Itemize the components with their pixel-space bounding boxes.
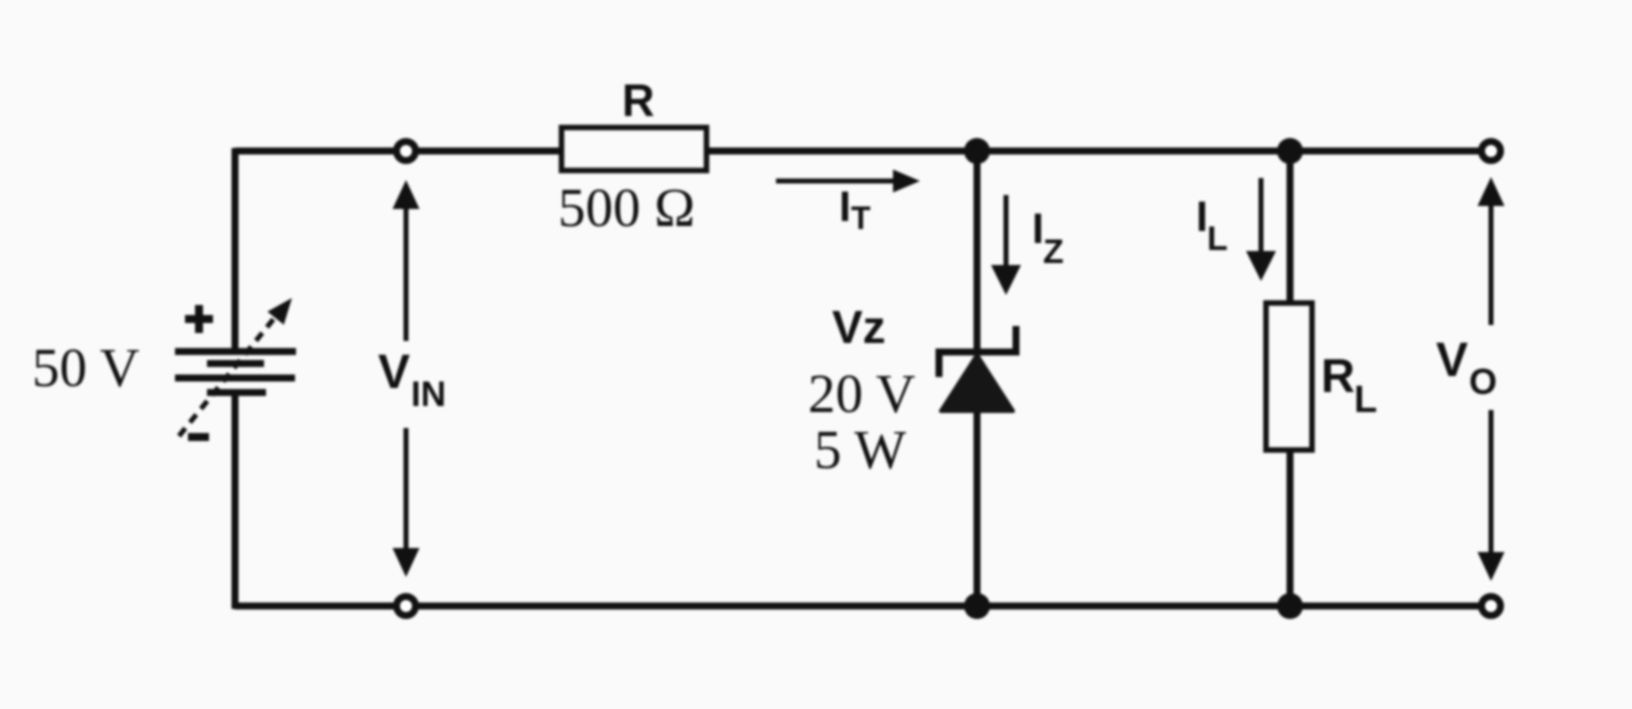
- svg-text:O: O: [1469, 361, 1497, 402]
- svg-text:IN: IN: [411, 375, 446, 414]
- svg-text:Z: Z: [1043, 233, 1064, 271]
- svg-text:I: I: [839, 183, 851, 231]
- svg-text:5 W: 5 W: [814, 419, 906, 480]
- svg-text:L: L: [1207, 220, 1228, 258]
- svg-text:V: V: [378, 346, 410, 399]
- svg-text:R: R: [622, 75, 655, 126]
- svg-text:L: L: [1354, 379, 1377, 421]
- svg-text:Vz: Vz: [832, 301, 886, 353]
- svg-text:R: R: [1321, 349, 1355, 402]
- svg-text:T: T: [851, 200, 871, 236]
- svg-text:V: V: [1436, 334, 1468, 387]
- svg-text:50 V: 50 V: [32, 337, 140, 398]
- svg-text:500 Ω: 500 Ω: [558, 177, 695, 238]
- svg-text:20 V: 20 V: [808, 363, 916, 424]
